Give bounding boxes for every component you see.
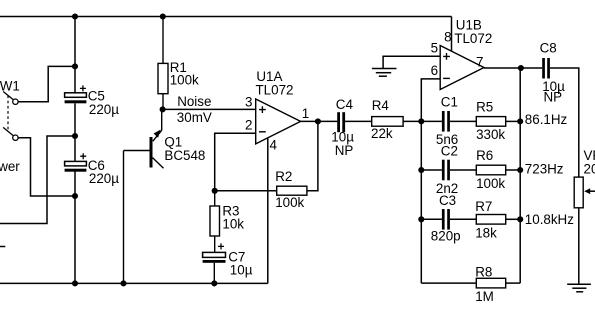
svg-text:R6: R6 <box>476 148 493 163</box>
battery terminal dash at left edge <box>0 246 5 248</box>
wire row4 R8 to feedback <box>506 282 521 284</box>
node summing row3 <box>418 216 424 222</box>
node -V C7 <box>211 280 217 286</box>
svg-text:R7: R7 <box>475 199 492 214</box>
svg-text:1: 1 <box>302 106 309 121</box>
wire C4 to R4 <box>345 120 372 122</box>
wire U1B pin 8 supply drop <box>451 17 453 52</box>
svg-text:Noise: Noise <box>177 94 211 109</box>
node U1A output <box>315 118 321 124</box>
svg-text:100k: 100k <box>275 195 304 210</box>
wire +V rail to C5 <box>74 17 76 93</box>
wire row3 summing to C3 <box>421 218 442 220</box>
capacitor C8 10u NP <box>540 40 565 104</box>
wire 0V to left edge <box>0 136 75 224</box>
node summing row2 <box>418 167 424 173</box>
svg-text:C4: C4 <box>336 97 354 112</box>
wire C5 to 0V node to C6 <box>74 103 76 161</box>
svg-text:NP: NP <box>335 143 354 158</box>
ground at U1B pin 5 <box>372 69 397 77</box>
wire row2 R6 to feedback <box>506 169 521 171</box>
wire U1B pin 6 summing vertical <box>421 79 440 283</box>
wire U1A output to C4 <box>301 120 338 122</box>
capacitor C1 5n6 <box>436 95 458 148</box>
svg-text:NP: NP <box>544 90 563 105</box>
svg-text:8: 8 <box>444 30 451 45</box>
resistor R6 100k <box>476 148 506 191</box>
svg-text:18k: 18k <box>475 225 497 240</box>
capacitor C6 220u <box>65 153 120 186</box>
wire row2 summing to C2 <box>421 169 442 171</box>
capacitor C7 10u <box>203 243 253 283</box>
svg-text:R4: R4 <box>372 98 390 113</box>
capacitor C3 820p <box>431 193 461 244</box>
wire -V bottom rail <box>0 282 268 284</box>
svg-text:7: 7 <box>476 54 483 69</box>
node C6 bottom SW1 pole B <box>72 193 78 199</box>
wire SW1 pole B to -V branch <box>18 138 75 196</box>
svg-text:R5: R5 <box>476 100 493 115</box>
resistor R2 100k <box>275 169 307 210</box>
wire row4 summing to R8 <box>421 282 476 284</box>
svg-text:723Hz: 723Hz <box>525 162 564 177</box>
node feedback row2 <box>517 167 523 173</box>
svg-text:100k: 100k <box>170 73 199 88</box>
svg-text:C3: C3 <box>439 193 456 208</box>
node top rail C5 branch <box>72 13 78 19</box>
wire C6 to -V rail <box>74 171 76 283</box>
wire row3 R7 to feedback <box>506 218 521 220</box>
wire +V top rail <box>0 16 452 18</box>
svg-text:5: 5 <box>431 41 438 56</box>
svg-text:22k: 22k <box>371 126 393 141</box>
resistor R8 1M <box>475 264 505 304</box>
svg-text:20k: 20k <box>584 162 595 177</box>
svg-text:86.1Hz: 86.1Hz <box>525 112 568 127</box>
node SW1 pole A join <box>72 63 78 69</box>
wire row3 C3 to R7 <box>450 218 476 220</box>
op-amp U1B TL072 <box>431 18 493 90</box>
svg-text:2: 2 <box>245 117 252 132</box>
wire inverting node to R2 <box>215 190 277 192</box>
resistor R3 10k <box>210 191 244 253</box>
switch SW1 <box>3 92 18 141</box>
op-amp U1A TL072 <box>245 69 309 152</box>
resistor R5 330k <box>476 100 506 142</box>
svg-text:TL072: TL072 <box>454 31 492 46</box>
wire U1A pin 4 to -V rail <box>267 138 269 284</box>
svg-text:Power: Power <box>0 159 20 174</box>
svg-text:4: 4 <box>270 138 278 153</box>
wire C8 to VR1 <box>550 68 579 177</box>
svg-text:R8: R8 <box>475 264 492 279</box>
svg-text:1M: 1M <box>475 289 494 304</box>
svg-text:10µ: 10µ <box>230 262 253 277</box>
capacitor C5 220u <box>65 85 120 117</box>
wire feedback vertical <box>519 68 521 283</box>
capacitor C4 10u NP <box>331 97 354 158</box>
node top rail R1 branch <box>160 13 166 19</box>
resistor R7 18k <box>475 199 505 241</box>
svg-text:C2: C2 <box>441 144 458 159</box>
node feedback row1 <box>517 118 523 124</box>
potentiometer VR1 <box>574 148 595 208</box>
wire VR1 wiper <box>589 190 595 192</box>
wire noise node to U1A pin 3 <box>163 108 256 110</box>
node 0V midpoint <box>72 133 78 139</box>
svg-text:10k: 10k <box>222 216 244 231</box>
wire U1A pin 2 to inverting node <box>215 133 256 191</box>
svg-text:220µ: 220µ <box>89 102 119 117</box>
transistor Q1 BC548 <box>124 109 206 283</box>
svg-text:6: 6 <box>431 63 438 78</box>
svg-text:10.8kHz: 10.8kHz <box>525 212 574 227</box>
svg-text:820p: 820p <box>431 229 461 244</box>
wire row2 C2 to R6 <box>450 169 476 171</box>
svg-text:BC548: BC548 <box>164 148 205 163</box>
svg-text:100k: 100k <box>476 176 505 191</box>
svg-text:SW1: SW1 <box>0 79 20 94</box>
wire R4 to summing node <box>403 120 421 122</box>
resistor R4 22k <box>371 98 403 141</box>
svg-text:C8: C8 <box>540 40 557 55</box>
wire SW1 pole A to +V branch <box>18 66 75 101</box>
svg-text:220µ: 220µ <box>89 171 119 186</box>
node feedback row3 <box>517 216 523 222</box>
wire row1 R5 to feedback <box>506 120 521 122</box>
node -V C5C6 branch <box>72 280 78 286</box>
resistor R1 100k <box>158 17 199 110</box>
wire U1A output down to R2 <box>307 121 318 190</box>
wire VR1 to ground <box>578 208 580 284</box>
wire row1 C1 to R5 <box>450 120 476 122</box>
node noise <box>160 106 166 112</box>
wire row1 summing to C1 <box>421 120 442 122</box>
svg-text:R2: R2 <box>275 169 292 184</box>
capacitor C2 2n2 <box>436 144 458 196</box>
svg-text:30mV: 30mV <box>177 110 212 125</box>
svg-text:TL072: TL072 <box>256 82 294 97</box>
svg-text:3: 3 <box>245 94 252 109</box>
wire U1B pin 5 to ground <box>383 56 440 68</box>
node U1B output <box>518 65 524 71</box>
wire U1B output to C8 <box>484 67 542 69</box>
svg-text:330k: 330k <box>476 127 505 142</box>
node -V Q1 base <box>120 280 126 286</box>
svg-text:C1: C1 <box>441 95 458 110</box>
ground below VR1 <box>567 284 591 292</box>
node U1A inverting <box>212 188 218 194</box>
node summing row1 <box>418 118 424 124</box>
